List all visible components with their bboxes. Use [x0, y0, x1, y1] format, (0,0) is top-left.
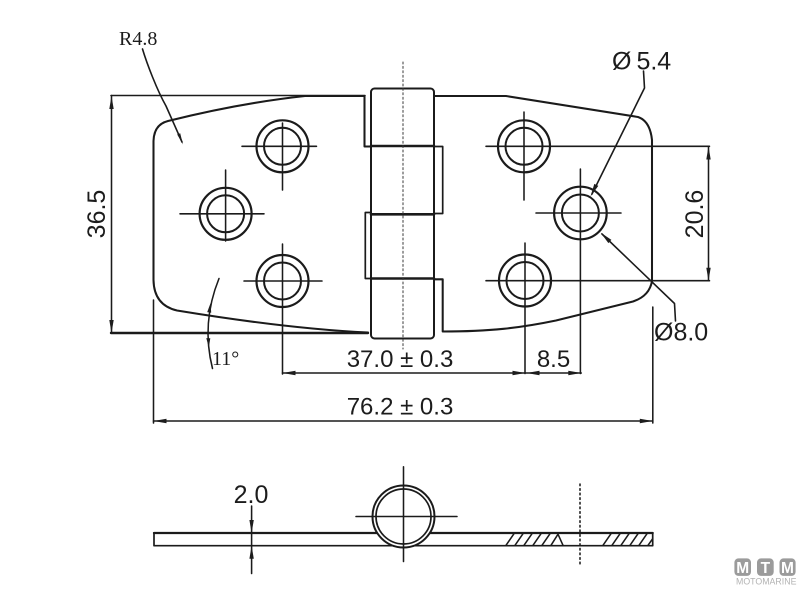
- hole bottom-left inner Ø5.4: [264, 263, 301, 300]
- leader R4.8: [143, 49, 183, 142]
- arrow 36.5 down: [109, 320, 113, 333]
- arrow 2.0 down: [249, 520, 253, 533]
- logo square M1: [734, 558, 751, 576]
- baseline / bottom extension (36.5 and 11 deg): [111, 332, 368, 334]
- hole bottom-left outer Ø8.0: [257, 255, 309, 307]
- hole top-left inner Ø5.4: [264, 128, 301, 165]
- arrow leader 8.0: [601, 233, 612, 244]
- hole top-left outer Ø8.0: [257, 120, 309, 172]
- svg-text:M: M: [736, 560, 749, 577]
- leader dia 8.0: [602, 234, 676, 321]
- side view barrel crosshair: [356, 467, 457, 562]
- arrow 20.6 down: [706, 268, 710, 281]
- side view barrel outer circle: [373, 486, 435, 548]
- svg-text:37.0 ± 0.3: 37.0 ± 0.3: [347, 346, 454, 373]
- arrow 8.5 right: [568, 371, 581, 375]
- hole mid-right crosshair + 8.5 extension: [536, 169, 621, 374]
- hole mid-right inner Ø5.4: [562, 195, 599, 232]
- hole mid-left inner Ø5.4: [207, 195, 244, 232]
- hinge left leaf outline: [154, 96, 372, 333]
- leader dia 5.4: [592, 71, 645, 194]
- hole mid-left outer Ø8.0: [200, 188, 252, 240]
- arrow 11 deg arc lower: [206, 338, 210, 347]
- knuckle joint line 3: [371, 277, 434, 280]
- side view hatching right group: [603, 534, 653, 546]
- extension line top (36.5): [111, 95, 365, 97]
- svg-text:11°: 11°: [212, 348, 239, 370]
- arrow 76.2 right: [640, 419, 653, 423]
- knuckle joint line 1: [371, 145, 434, 148]
- arrow 37.0 left: [283, 371, 296, 375]
- arrow 20.6 up: [706, 147, 710, 160]
- barrel centerline: [402, 62, 404, 349]
- hole top-right inner Ø5.4: [506, 128, 543, 165]
- hole mid-left crosshair: [180, 170, 264, 241]
- right leaf knuckle step: [434, 147, 443, 214]
- hinge right leaf outline: [434, 96, 652, 332]
- arrow leader 5.4: [591, 184, 599, 197]
- knuckle joint line 2: [371, 213, 434, 216]
- left leaf knuckle step: [365, 213, 371, 279]
- arrow 36.5 up: [109, 96, 113, 109]
- arrow 2.0 up: [249, 546, 253, 559]
- svg-text:76.2 ± 0.3: 76.2 ± 0.3: [347, 394, 454, 421]
- dimension line 76.2: [154, 420, 653, 422]
- dimension line 20.6: [708, 146, 710, 280]
- side view barrel inner circle: [376, 489, 431, 544]
- extension line 76.2 right: [652, 307, 654, 423]
- svg-text:2.0: 2.0: [234, 481, 269, 509]
- svg-text:T: T: [761, 560, 771, 577]
- arrow leader R4.8: [177, 133, 183, 144]
- side view bar top edge (thick): [154, 532, 653, 534]
- svg-text:36.5: 36.5: [83, 190, 111, 239]
- svg-text:Ø8.0: Ø8.0: [654, 319, 708, 347]
- arrow 11 deg arc upper: [207, 303, 211, 313]
- extension line 76.2 left: [153, 300, 155, 423]
- side view plate bar: [154, 533, 653, 546]
- side view hatching left group: [506, 534, 563, 546]
- dimension line 37.0 / 8.5: [283, 372, 582, 374]
- hole mid-right outer Ø8.0: [554, 187, 607, 240]
- arrow 76.2 left: [154, 419, 167, 423]
- svg-text:R4.8: R4.8: [119, 28, 157, 50]
- dimension line 36.5: [111, 96, 113, 334]
- hinge barrel (knuckle column): [371, 89, 434, 339]
- side view dotted section line: [579, 484, 581, 565]
- svg-text:MOTOMARINE: MOTOMARINE: [736, 577, 797, 587]
- hole bottom-left crosshair + 37.0 extension: [244, 244, 322, 374]
- svg-text:M: M: [781, 560, 794, 577]
- arrow 37.0 right: [513, 371, 526, 375]
- hole top-right crosshair + 20.6 top extension: [486, 112, 710, 200]
- angle 11 deg arc: [208, 279, 219, 369]
- svg-text:20.6: 20.6: [681, 190, 709, 239]
- logo square M2: [780, 558, 796, 576]
- hole top-right outer Ø8.0: [498, 120, 550, 172]
- hole bottom-right inner Ø5.4: [507, 262, 544, 299]
- hole bottom-right outer Ø8.0: [499, 255, 551, 307]
- arrow 8.5 left: [527, 371, 540, 375]
- svg-text:Ø 5.4: Ø 5.4: [612, 48, 671, 76]
- logo square T: [757, 558, 774, 576]
- hole bottom-right crosshair + 20.6 bottom extension + 37.0 extension: [486, 243, 710, 374]
- svg-text:8.5: 8.5: [537, 346, 570, 373]
- dimension 2.0 leader line: [251, 506, 253, 574]
- hole top-left crosshair: [242, 123, 317, 190]
